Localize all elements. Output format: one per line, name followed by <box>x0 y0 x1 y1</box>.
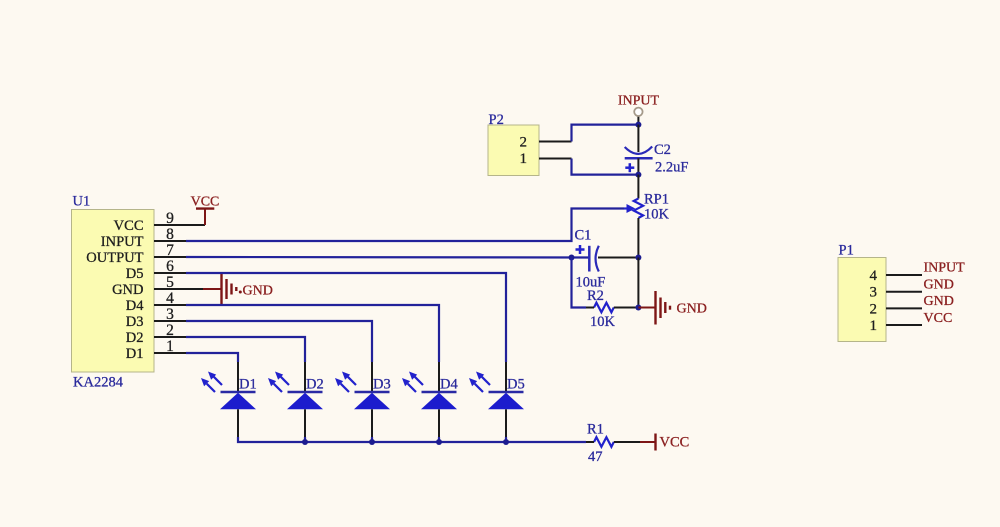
P1 pin 1 number <box>870 318 878 334</box>
net label GND (U1 pin 5) <box>243 284 273 299</box>
C2 designator <box>654 142 671 158</box>
svg-text:D2: D2 <box>126 330 144 346</box>
svg-text:GND: GND <box>924 294 954 309</box>
wire LED bottom rail <box>238 437 586 442</box>
U1 designator <box>73 194 91 210</box>
svg-text:9: 9 <box>166 210 174 227</box>
U1 pin name D5 <box>126 266 144 282</box>
power port VCC at U1 pin 9 <box>196 209 214 225</box>
U1 pin name INPUT <box>101 234 144 250</box>
svg-text:VCC: VCC <box>191 195 220 210</box>
U1 pin name D1 <box>126 346 144 362</box>
U1 pin name D3 <box>126 314 144 330</box>
svg-text:D4: D4 <box>126 298 144 314</box>
R1 value 47 <box>588 449 603 465</box>
U1 pin 7 stub <box>154 256 186 258</box>
svg-text:GND: GND <box>924 278 954 293</box>
U1 pin 2 stub <box>154 336 186 338</box>
svg-text:INPUT: INPUT <box>101 234 144 250</box>
wire U1 pin 7 to C1 <box>186 256 589 259</box>
junction node OUTPUT/C1/R2 <box>569 255 575 261</box>
wire U1 pin 2 to LED D2 <box>186 337 305 362</box>
resistor R2 <box>586 303 638 313</box>
wire RP1 bottom node down to R2 right node <box>637 258 639 308</box>
net label VCC (U1 pin 9) <box>191 195 220 210</box>
svg-text:5: 5 <box>166 274 174 291</box>
RP1 designator <box>644 192 669 208</box>
U1 pin 3 number <box>166 306 174 323</box>
svg-text:10K: 10K <box>590 314 616 330</box>
wire U1 pin 6 to LED D5 <box>186 273 506 362</box>
svg-text:VCC: VCC <box>660 435 690 451</box>
svg-text:D3: D3 <box>373 377 391 393</box>
svg-text:VCC: VCC <box>114 218 144 234</box>
U1 pin 4 stub <box>154 304 186 306</box>
P2 pin 2 number <box>520 135 528 151</box>
svg-text:D5: D5 <box>507 377 525 393</box>
svg-text:P2: P2 <box>489 112 504 128</box>
potentiometer RP1 <box>624 175 643 258</box>
power port VCC right (bar) <box>640 434 656 451</box>
svg-text:D1: D1 <box>239 377 257 393</box>
svg-text:KA2284: KA2284 <box>73 375 124 391</box>
junction node at INPUT <box>635 122 641 128</box>
junction node rail D5 <box>503 439 509 445</box>
power ground GND at U1 pin 5 <box>203 273 242 306</box>
LED D3 <box>335 362 390 437</box>
svg-text:P1: P1 <box>839 243 854 259</box>
U1 pin 5 stub <box>154 288 203 290</box>
svg-text:D4: D4 <box>440 377 458 393</box>
R1 designator <box>587 422 604 438</box>
U1 pin 9 number <box>166 210 174 227</box>
P1 designator <box>839 243 854 259</box>
C1 value 10uF <box>576 275 606 291</box>
svg-text:2: 2 <box>520 135 528 151</box>
svg-text:GND: GND <box>677 302 707 317</box>
U1 pin 2 number <box>166 322 174 339</box>
svg-text:3: 3 <box>870 285 878 301</box>
U1 pin 8 stub <box>154 240 186 242</box>
svg-text:2: 2 <box>166 322 174 339</box>
wire U1 pin 4 to LED D4 <box>186 305 439 362</box>
capacitor C1 <box>589 246 638 272</box>
P1 pin 4 stub <box>886 274 922 276</box>
svg-text:7: 7 <box>166 242 174 259</box>
svg-text:RP1: RP1 <box>644 192 669 208</box>
net port INPUT circle <box>634 108 642 125</box>
D3 designator <box>373 377 391 393</box>
junction node rail D3 <box>369 439 375 445</box>
U1 pin 7 number <box>166 242 174 259</box>
net label GND (P1 pin 2) <box>924 294 954 309</box>
junction node rail D2 <box>302 439 308 445</box>
wire P2 pin 2 to INPUT node <box>572 125 639 142</box>
C1 plus sign <box>576 245 585 254</box>
connector P2 body <box>488 125 539 176</box>
wire C1 node down to R2 <box>572 258 587 308</box>
wire P2 pin 1 to C2 bottom node <box>572 159 639 175</box>
D2 designator <box>306 377 324 393</box>
P2 designator <box>489 112 504 128</box>
LED D2 <box>268 362 323 437</box>
svg-text:C2: C2 <box>654 142 671 158</box>
U1 pin 1 stub <box>154 352 186 354</box>
R2 designator <box>587 288 604 304</box>
svg-text:D1: D1 <box>126 346 144 362</box>
IC U1 body <box>72 210 155 373</box>
wire U1 pin 1 to LED D1 <box>186 353 238 362</box>
svg-text:GND: GND <box>112 282 143 298</box>
net label VCC (P1 pin 1) <box>924 311 953 326</box>
P1 pin 3 stub <box>886 291 922 293</box>
C2 value 2.2uF <box>655 160 688 176</box>
P1 pin 2 number <box>870 301 878 317</box>
U1 pin name VCC <box>114 218 144 234</box>
U1 pin 9 stub <box>154 224 205 226</box>
wire U1 pin 8 to RP1 wiper <box>186 209 624 242</box>
junction node rail D4 <box>436 439 442 445</box>
svg-text:VCC: VCC <box>924 311 953 326</box>
P1 pin 2 stub <box>886 307 922 309</box>
C1 designator <box>575 228 592 244</box>
LED D5 <box>469 362 524 437</box>
U1 pin 6 stub <box>154 272 186 274</box>
svg-text:4: 4 <box>870 268 878 284</box>
P1 pin 3 number <box>870 285 878 301</box>
svg-text:OUTPUT: OUTPUT <box>86 250 143 266</box>
svg-text:INPUT: INPUT <box>618 94 660 109</box>
wire U1 pin 3 to LED D3 <box>186 321 372 362</box>
U1 pin 4 number <box>166 290 174 307</box>
svg-text:6: 6 <box>166 258 174 275</box>
svg-text:U1: U1 <box>73 194 91 210</box>
C2 plus sign <box>625 163 634 172</box>
svg-text:R2: R2 <box>587 288 604 304</box>
R2 value 10K <box>590 314 616 330</box>
P1 pin 4 number <box>870 268 878 284</box>
svg-text:3: 3 <box>166 306 174 323</box>
svg-text:C1: C1 <box>575 228 592 244</box>
svg-text:1: 1 <box>870 318 878 334</box>
junction node C1 right / RP1 bottom <box>635 255 641 261</box>
svg-text:GND: GND <box>243 284 273 299</box>
net label GND (P1 pin 3) <box>924 278 954 293</box>
svg-text:D3: D3 <box>126 314 144 330</box>
svg-text:2.2uF: 2.2uF <box>655 160 688 176</box>
junction node at C2 bottom <box>635 172 641 178</box>
svg-text:INPUT: INPUT <box>924 261 966 276</box>
U1 pin name D2 <box>126 330 144 346</box>
U1 pin 8 number <box>166 226 174 243</box>
svg-text:10K: 10K <box>644 207 670 223</box>
U1 pin 1 number <box>166 338 174 355</box>
net label INPUT (top) <box>618 94 660 109</box>
svg-text:1: 1 <box>520 151 528 167</box>
RP1 value 10K <box>644 207 670 223</box>
svg-text:4: 4 <box>166 290 174 307</box>
net label GND (right) <box>677 302 707 317</box>
svg-text:D5: D5 <box>126 266 144 282</box>
U1 pin 6 number <box>166 258 174 275</box>
P2 pin 1 number <box>520 151 528 167</box>
LED D4 <box>402 362 457 437</box>
P1 pin 1 stub <box>886 324 922 326</box>
svg-text:8: 8 <box>166 226 174 243</box>
svg-text:R1: R1 <box>587 422 604 438</box>
U1 pin 5 number <box>166 274 174 291</box>
resistor R1 <box>586 437 640 447</box>
D4 designator <box>440 377 458 393</box>
P2 pin 1 stub <box>539 158 572 160</box>
U1 pin name D4 <box>126 298 144 314</box>
svg-text:D2: D2 <box>306 377 324 393</box>
D1 designator <box>239 377 257 393</box>
net label INPUT (P1 pin 4) <box>924 261 966 276</box>
U1 pin name GND <box>112 282 143 298</box>
net label VCC (right) <box>660 435 690 451</box>
capacitor C2 <box>625 125 653 175</box>
connector P1 body <box>838 258 886 342</box>
junction node R2/GND <box>635 305 641 311</box>
U1 pin name OUTPUT <box>86 250 143 266</box>
power ground GND right <box>638 291 670 325</box>
svg-text:2: 2 <box>870 301 878 317</box>
U1 pin 3 stub <box>154 320 186 322</box>
P2 pin 2 stub <box>539 141 572 143</box>
LED D1 <box>201 362 256 437</box>
D5 designator <box>507 377 525 393</box>
svg-text:47: 47 <box>588 449 603 465</box>
svg-text:1: 1 <box>166 338 174 355</box>
U1 value KA2284 <box>73 375 124 391</box>
